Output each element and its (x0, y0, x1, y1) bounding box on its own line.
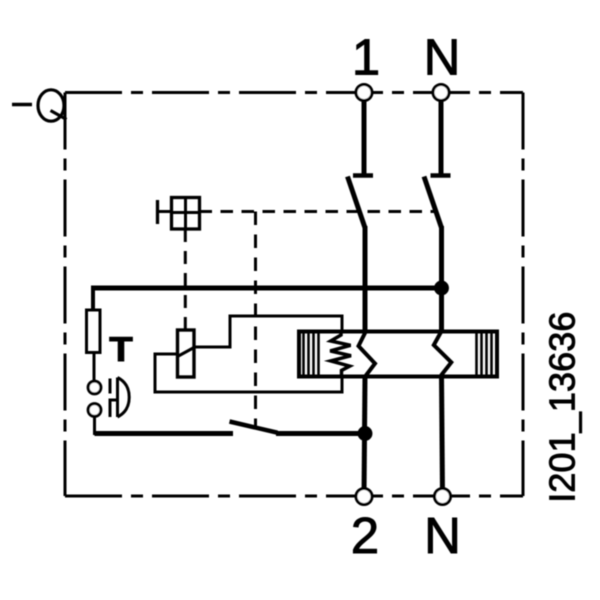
trip relay coil (178, 330, 195, 377)
terminal N top (433, 85, 449, 101)
mechanism box cross vertical (184, 198, 187, 230)
wire resistor to test button (93, 352, 96, 382)
core hatching left (302, 332, 305, 377)
wire pole 1 middle (363, 226, 368, 333)
terminal label 2 (353, 517, 376, 553)
junction dot test to pole N (435, 281, 449, 295)
conductor chevron pole N (434, 332, 452, 376)
core hatching right (475, 332, 478, 377)
test wire bottom heavy right (276, 431, 365, 436)
test button cap (118, 378, 130, 418)
switch blade pole N (424, 177, 442, 228)
wire pole N lower (442, 375, 443, 496)
resistor label T (110, 337, 133, 361)
fixed contact pole N (431, 173, 451, 178)
coupling dashed horizontal (200, 210, 437, 213)
enclosure boundary bottom (65, 495, 523, 498)
test button actuator crossbar (109, 399, 119, 402)
enclosure boundary top (65, 91, 523, 94)
mechanism box cross horizontal (172, 211, 200, 214)
test wire bottom heavy left (95, 431, 234, 436)
drawing number I201_13636 (549, 313, 581, 499)
test button contact bottom (88, 404, 101, 417)
trip relay diagonal (178, 348, 195, 357)
mechanism box (172, 198, 200, 230)
fixed contact pole 1 (353, 173, 373, 178)
test button actuator plunger bottom (109, 402, 112, 418)
wire pole 1 upper (362, 93, 367, 176)
relay wire right to winding top (194, 316, 342, 347)
terminal 2 (356, 489, 372, 505)
wire pole 1 lower (364, 375, 365, 496)
coupling dashed to aux contact (254, 212, 257, 428)
device designator Q ellipse (38, 90, 64, 121)
enclosure boundary right (522, 93, 525, 497)
wire pole N upper (439, 93, 444, 176)
relay wire left to winding bottom (155, 354, 342, 392)
terminal N bottom (435, 489, 451, 505)
junction dot test to pole 1 (358, 427, 372, 441)
current transformer core (299, 332, 497, 377)
test wire from N junction to resistor (93, 286, 442, 291)
mechanism handle bar (156, 200, 159, 224)
secondary winding zigzag (330, 332, 351, 377)
test button contact top (88, 381, 101, 394)
wire pole N middle (439, 226, 444, 333)
device designator -Q dash (12, 103, 32, 107)
test wire corner down (91, 286, 95, 312)
switch blade pole 1 (348, 177, 366, 228)
coupling dashed to trip relay (184, 229, 187, 330)
terminal 1 (356, 85, 372, 101)
conductor chevron pole 1 (359, 332, 376, 376)
aux test switch blade (230, 422, 278, 433)
device designator Q tail (51, 111, 67, 120)
mechanism handle link (158, 210, 172, 213)
test resistor (87, 310, 101, 353)
wire button down (93, 416, 96, 435)
test button actuator plunger top (109, 379, 112, 394)
terminal label N top (428, 39, 456, 74)
terminal label N bottom (428, 518, 456, 553)
terminal label 1 (356, 39, 378, 74)
enclosure boundary left (64, 93, 67, 497)
